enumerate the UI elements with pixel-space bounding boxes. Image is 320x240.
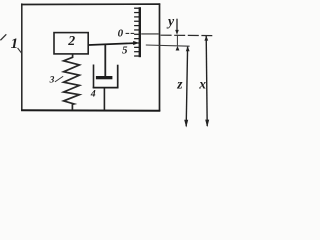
label 3 with leader [49, 76, 64, 86]
piston rod [104, 44, 106, 76]
reference line A (zero level), inside-to-outside [141, 34, 212, 36]
y dimension (relative displacement) [166, 13, 179, 50]
svg-text:x: x [198, 76, 206, 91]
damper 4 (dashpot) [93, 44, 119, 110]
cylinder left wall [93, 65, 95, 89]
frame 1 (instrument case) [21, 3, 160, 111]
z axis (case displacement), downward arrow [176, 46, 189, 127]
svg-text:0: 0 [118, 27, 124, 39]
svg-text:3: 3 [49, 76, 55, 86]
zero mark 0 with dashed leader [118, 27, 136, 39]
svg-text:2: 2 [67, 33, 75, 48]
svg-text:1: 1 [11, 36, 19, 52]
mass block 2 [54, 33, 88, 54]
label 1 with leader [0, 34, 21, 53]
reference line B (pointer level) [146, 45, 190, 46]
cylinder bottom [93, 87, 119, 89]
pointer (needle) from mass to scale [89, 41, 139, 45]
lower rod to case bottom [103, 88, 105, 110]
cylinder right wall [117, 65, 119, 89]
spring 3 [64, 54, 80, 110]
piston plate [96, 76, 113, 79]
svg-text:5: 5 [122, 45, 128, 57]
x axis (mass absolute displacement), downward arrow [198, 36, 209, 128]
scale 5 (graduated ruler) [134, 7, 141, 57]
svg-text:z: z [176, 76, 183, 91]
svg-text:4: 4 [90, 89, 96, 100]
svg-text:y: y [166, 13, 175, 28]
